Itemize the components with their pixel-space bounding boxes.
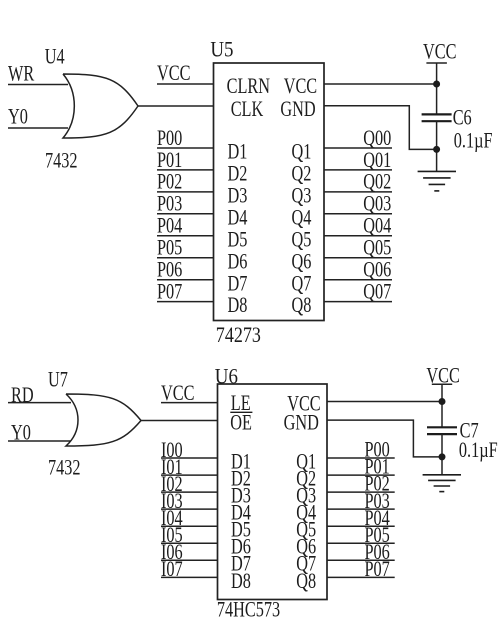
svg-text:Q07: Q07 [363, 280, 391, 304]
svg-text:WR: WR [8, 62, 34, 86]
pin label Q7 (U5) [292, 272, 312, 296]
svg-text:VCC: VCC [423, 40, 456, 64]
part number 74HC573 [217, 598, 280, 622]
pin label GND (U6) [284, 412, 319, 436]
pin label D6 (U6) [231, 535, 251, 559]
wire U6 Q7 to P06 [327, 559, 395, 561]
net label P06 [157, 258, 183, 282]
wire P01 to U5 D2 [157, 169, 214, 171]
wire U5 VCC pin to VCC rail [324, 83, 437, 85]
pin label Q2 (U6) [296, 467, 316, 491]
pin label D7 (U6) [231, 553, 251, 577]
net label I02 [161, 473, 183, 497]
svg-text:P00: P00 [157, 127, 182, 151]
svg-text:RD: RD [11, 384, 34, 408]
wire I01 to U6 D2 [161, 474, 218, 476]
pin label D7 (U5) [228, 272, 248, 296]
wire P04 to U5 D5 [157, 235, 214, 237]
svg-text:CLRN: CLRN [227, 75, 270, 99]
pin label Q4 (U5) [292, 206, 312, 230]
wire P05 to U5 D6 [157, 257, 214, 259]
svg-text:Y0: Y0 [8, 105, 28, 129]
net label Q05 [363, 236, 391, 260]
part number 74273 [216, 323, 261, 347]
svg-text:0.1µF: 0.1µF [454, 129, 493, 153]
svg-text:74HC573: 74HC573 [217, 598, 280, 622]
svg-text:Q04: Q04 [363, 214, 391, 238]
svg-text:C6: C6 [453, 106, 472, 130]
ic U6 74HC573 body [218, 384, 328, 600]
wire U5 Q8 to Q07 [324, 301, 392, 303]
pin label CLK [231, 98, 264, 122]
pin label Q5 (U5) [292, 228, 312, 252]
wire Y0 to U7 input B [8, 440, 71, 442]
pin label D1 (U5) [228, 140, 248, 164]
net label Q01 [363, 149, 391, 173]
net label I06 [161, 541, 183, 565]
pin label GND (U5) [280, 98, 315, 122]
svg-text:P03: P03 [157, 193, 182, 217]
net label P04 [157, 214, 183, 238]
pin label Q8 (U5) [292, 294, 312, 318]
net label I00 [161, 439, 183, 463]
designator U7 [48, 368, 68, 392]
svg-text:Q4: Q4 [292, 206, 312, 230]
wire RD to U7 input A [8, 402, 71, 404]
svg-text:Q1: Q1 [292, 140, 312, 164]
junction dot C6 bottom/GND [433, 146, 440, 153]
net label P04 (U6 output) [365, 507, 391, 531]
ic U5 74273 body [214, 63, 325, 321]
pin label Q5 (U6) [296, 518, 316, 542]
net label WR [8, 62, 34, 86]
ground symbol (top) [418, 171, 456, 191]
wire P06 to U5 D7 [157, 279, 214, 281]
power symbol VCC (top right) [423, 40, 456, 114]
net label P07 (U6 output) [365, 558, 391, 582]
wire I05 to U6 D6 [161, 542, 218, 544]
wire VCC to U6 LE pin [161, 402, 218, 404]
pin label Q6 (U5) [292, 250, 312, 274]
net label Q03 [363, 193, 391, 217]
svg-text:Q02: Q02 [363, 171, 391, 195]
wire U6 Q6 to P05 [327, 542, 395, 544]
wire U5 Q7 to Q06 [324, 279, 392, 281]
pin label Q1 (U6) [296, 450, 316, 474]
pin label D8 (U5) [228, 294, 248, 318]
pin label Q6 (U6) [296, 535, 316, 559]
wire VCC to U5 CLRN pin [157, 83, 214, 85]
pin label LE [231, 392, 251, 416]
net label Q07 [363, 280, 391, 304]
pin label Q7 (U6) [296, 553, 316, 577]
net label Q00 [363, 127, 391, 151]
svg-text:7432: 7432 [45, 149, 78, 173]
pin label Q2 (U5) [292, 162, 312, 186]
net label P02 (U6 output) [365, 473, 390, 497]
wire I00 to U6 D1 [161, 457, 218, 459]
net label Y0 (top) [8, 105, 28, 129]
net label Q04 [363, 214, 391, 238]
net label P00 [157, 127, 182, 151]
svg-text:GND: GND [280, 98, 315, 122]
net label I07 [161, 558, 183, 582]
ground symbol (bottom) [423, 475, 461, 492]
pin label OE [230, 411, 252, 435]
svg-text:GND: GND [284, 412, 319, 436]
net label Q06 [363, 258, 391, 282]
wire I03 to U6 D4 [161, 508, 218, 510]
wire I06 to U6 D7 [161, 559, 218, 561]
wire WR to U4 input A [8, 84, 68, 86]
wire I04 to U6 D5 [161, 525, 218, 527]
svg-text:Q6: Q6 [292, 250, 312, 274]
wire U5 Q4 to Q03 [324, 213, 392, 215]
junction dot VCC/C6 top [433, 81, 440, 88]
junction dot C7 bottom/GND [439, 453, 446, 460]
svg-text:Q01: Q01 [363, 149, 391, 173]
svg-text:P05: P05 [157, 236, 182, 260]
svg-text:Q00: Q00 [363, 127, 391, 151]
wire P02 to U5 D3 [157, 191, 214, 193]
wire U6 Q1 to P00 [327, 457, 395, 459]
svg-text:D8: D8 [228, 294, 248, 318]
net label I05 [161, 524, 183, 548]
net label P02 [157, 171, 182, 195]
part value 7432 (U7) [48, 456, 81, 480]
wire U6 VCC pin to VCC rail [327, 401, 442, 403]
svg-text:Q7: Q7 [292, 272, 312, 296]
net label I04 [161, 507, 183, 531]
pin label Q3 (U5) [292, 184, 312, 208]
wire I02 to U6 D3 [161, 491, 218, 493]
wire P07 to U5 D8 [157, 301, 214, 303]
pin label VCC (U6) [287, 392, 320, 416]
wire U7 output to U6 OE pin [141, 420, 218, 422]
svg-text:D1: D1 [228, 140, 248, 164]
svg-text:U7: U7 [48, 368, 68, 392]
wire U6 Q3 to P02 [327, 491, 395, 493]
net label I01 [161, 456, 183, 480]
pin label VCC (U5) [284, 75, 317, 99]
svg-text:Q06: Q06 [363, 258, 391, 282]
wire U5 Q6 to Q05 [324, 257, 392, 259]
svg-text:0.1µF: 0.1µF [459, 439, 498, 463]
pin label D4 (U5) [228, 206, 248, 230]
svg-text:VCC: VCC [157, 62, 190, 86]
svg-text:D2: D2 [228, 162, 248, 186]
net label P03 (U6 output) [365, 490, 390, 514]
net label P07 [157, 280, 183, 304]
svg-text:Q3: Q3 [292, 184, 312, 208]
svg-text:74273: 74273 [216, 323, 261, 347]
svg-text:D8: D8 [231, 570, 251, 594]
pin label CLRN [227, 75, 270, 99]
wire U6 Q2 to P01 [327, 474, 395, 476]
designator U6 [215, 365, 238, 389]
wire I07 to U6 D8 [161, 576, 218, 578]
svg-text:P02: P02 [157, 171, 182, 195]
pin label D1 (U6) [231, 450, 251, 474]
net label P05 [157, 236, 182, 260]
svg-text:D3: D3 [228, 184, 248, 208]
wire U6 Q5 to P04 [327, 525, 395, 527]
wire U5 Q2 to Q01 [324, 169, 392, 171]
net label P05 (U6 output) [365, 524, 390, 548]
junction dot VCC/C7 top [439, 398, 446, 405]
pin label D2 (U5) [228, 162, 248, 186]
svg-text:Q03: Q03 [363, 193, 391, 217]
capacitor C7 0.1uF [427, 419, 498, 463]
svg-text:D5: D5 [228, 228, 248, 252]
svg-text:Q8: Q8 [296, 570, 316, 594]
svg-text:P04: P04 [157, 214, 183, 238]
wire C7 bottom to ground [441, 434, 443, 474]
pin label Q1 (U5) [292, 140, 312, 164]
svg-text:Q2: Q2 [292, 162, 312, 186]
wire U6 Q8 to P07 [327, 576, 395, 578]
or-gate U4 body [63, 74, 138, 138]
capacitor C6 0.1uF [422, 106, 493, 153]
pin label D3 (U5) [228, 184, 248, 208]
power symbol VCC (bottom right) [426, 365, 459, 428]
wire U6 GND pin to C7 bottom node [327, 420, 442, 457]
svg-text:OE: OE [230, 411, 252, 435]
svg-text:D6: D6 [228, 250, 248, 274]
svg-text:7432: 7432 [48, 456, 81, 480]
net label Q02 [363, 171, 391, 195]
pin label D5 (U5) [228, 228, 248, 252]
svg-text:D7: D7 [228, 272, 248, 296]
svg-text:P06: P06 [157, 258, 183, 282]
svg-text:Q8: Q8 [292, 294, 312, 318]
designator U4 [45, 45, 65, 69]
net label P06 (U6 output) [365, 541, 391, 565]
wire U5 Q3 to Q02 [324, 191, 392, 193]
net label P00 (U6 output) [365, 438, 390, 462]
pin label D3 (U6) [231, 484, 251, 508]
svg-text:P01: P01 [157, 149, 182, 173]
svg-text:I07: I07 [161, 558, 183, 582]
wire U6 Q4 to P03 [327, 508, 395, 510]
designator U5 [210, 38, 233, 62]
pin label D8 (U6) [231, 570, 251, 594]
svg-text:CLK: CLK [231, 98, 264, 122]
pin label Q4 (U6) [296, 501, 316, 525]
net label VCC at U6 LE [161, 382, 194, 406]
pin label D6 (U5) [228, 250, 248, 274]
net label P01 [157, 149, 182, 173]
svg-text:P07: P07 [157, 280, 183, 304]
svg-text:VCC: VCC [426, 365, 459, 389]
net label Y0 (bottom) [11, 421, 31, 445]
wire U4 output to U5 CLK pin [138, 105, 214, 107]
wire C6 bottom to ground [436, 121, 438, 171]
pin label D4 (U6) [231, 501, 251, 525]
wire P03 to U5 D4 [157, 213, 214, 215]
wire U5 GND pin to C6 bottom node [324, 106, 437, 150]
svg-text:U5: U5 [210, 38, 233, 62]
net label P01 (U6 output) [365, 456, 390, 480]
svg-text:VCC: VCC [284, 75, 317, 99]
pin label Q8 (U6) [296, 570, 316, 594]
pin label Q3 (U6) [296, 484, 316, 508]
svg-text:D4: D4 [228, 206, 248, 230]
svg-text:U4: U4 [45, 45, 65, 69]
svg-text:Q05: Q05 [363, 236, 391, 260]
svg-text:Q5: Q5 [292, 228, 312, 252]
overline bar for OE pin [230, 411, 252, 413]
net label P03 [157, 193, 182, 217]
wire U5 Q5 to Q04 [324, 235, 392, 237]
part value 7432 (U4) [45, 149, 78, 173]
svg-text:U6: U6 [215, 365, 238, 389]
or-gate U7 body [66, 394, 141, 446]
wire U5 Q1 to Q00 [324, 147, 392, 149]
net label VCC at U5 CLRN [157, 62, 190, 86]
wire P00 to U5 D1 [157, 147, 214, 149]
net label RD [11, 384, 34, 408]
wire Y0 to U4 input B [8, 127, 68, 129]
pin label D5 (U6) [231, 518, 251, 542]
pin label D2 (U6) [231, 467, 251, 491]
net label I03 [161, 490, 183, 514]
